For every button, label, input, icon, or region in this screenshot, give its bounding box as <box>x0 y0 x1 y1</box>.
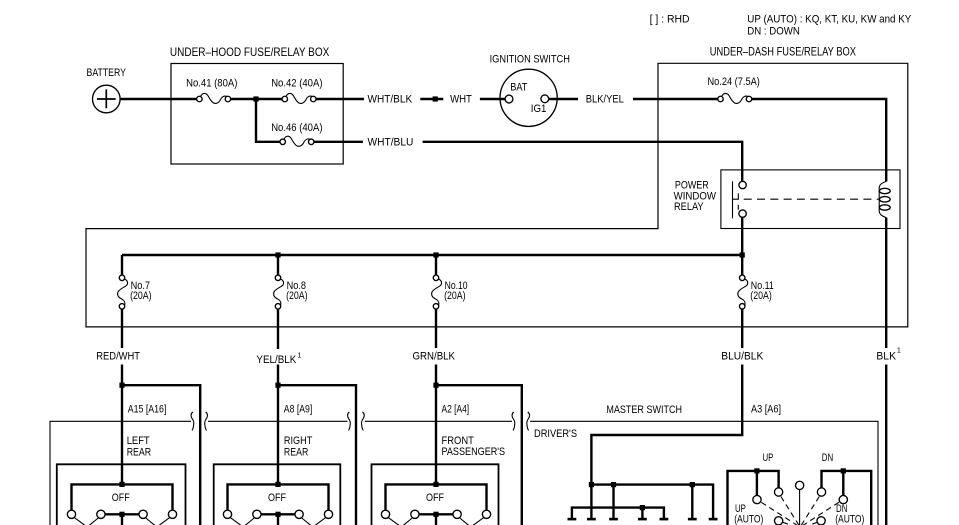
left rear switch contacts <box>67 510 75 518</box>
svg-text:REAR: REAR <box>284 446 308 458</box>
right rear switch box <box>214 464 341 525</box>
ignition switch IG1 contact <box>541 95 549 103</box>
svg-text:(AUTO): (AUTO) <box>734 514 763 525</box>
svg-text:BLU/BLK: BLU/BLK <box>721 350 764 362</box>
svg-text:A15 [A16]: A15 [A16] <box>128 404 167 416</box>
svg-text:(AUTO): (AUTO) <box>835 514 864 525</box>
svg-text:REAR: REAR <box>127 446 151 458</box>
front passenger door outline with breaks <box>361 412 364 430</box>
wire WHT/BLU <box>311 142 742 185</box>
left rear switch box <box>57 464 186 525</box>
node bus No.10 <box>433 252 438 257</box>
svg-text:RELAY: RELAY <box>674 201 704 213</box>
svg-text:(20A): (20A) <box>750 290 772 302</box>
svg-text:[ ] : RHD: [ ] : RHD <box>650 13 690 25</box>
right rear door outline with breaks <box>205 412 208 430</box>
svg-text:DRIVER'S: DRIVER'S <box>534 428 577 440</box>
node left rear branch <box>119 383 124 388</box>
wire right rear bypass <box>278 385 356 525</box>
svg-text:BAT: BAT <box>510 81 527 93</box>
master UP bracket <box>728 471 779 525</box>
svg-text:BLK/YEL: BLK/YEL <box>586 94 624 106</box>
node bus No.11 <box>740 252 745 257</box>
wire fuse No.24 to coil <box>750 99 886 182</box>
svg-text:UNDER–HOOD FUSE/RELAY BOX: UNDER–HOOD FUSE/RELAY BOX <box>170 45 329 59</box>
wire fuse No.7 branch <box>121 255 123 484</box>
svg-text:OFF: OFF <box>426 492 444 504</box>
relay armature <box>733 181 739 218</box>
svg-text:BLK: BLK <box>876 350 896 362</box>
wire fuse bus <box>122 254 742 256</box>
svg-text:No.41 (80A): No.41 (80A) <box>186 78 237 90</box>
wire left rear bypass <box>122 385 200 525</box>
front passenger switch OFF bracket <box>386 484 487 525</box>
svg-text:UP (AUTO) : KQ, KT, KU, KW and: UP (AUTO) : KQ, KT, KU, KW and KY <box>747 13 912 25</box>
wire BLK/YEL <box>545 98 721 100</box>
master pivot stem <box>799 490 801 525</box>
under-hood fuse/relay box outline <box>171 64 343 165</box>
svg-text:RED/WHT: RED/WHT <box>96 350 140 362</box>
fuse No.11 (20A) <box>738 275 748 309</box>
svg-text:LEFT: LEFT <box>127 435 150 447</box>
relay dashed link <box>744 198 879 200</box>
right rear switch wipers <box>231 518 326 525</box>
svg-text:IG1: IG1 <box>531 103 547 115</box>
svg-text:1: 1 <box>297 351 301 360</box>
ignition switch BAT contact <box>505 95 513 103</box>
right rear switch OFF bracket <box>228 484 329 525</box>
node under-hood junction <box>253 96 258 101</box>
fuse No.10 (20A) <box>432 275 442 309</box>
svg-text:GRN/BLK: GRN/BLK <box>413 350 456 362</box>
svg-text:A2 [A4]: A2 [A4] <box>442 404 470 416</box>
master switch contacts <box>795 481 803 489</box>
ignition switch body <box>500 69 557 126</box>
left rear switch OFF bracket <box>72 484 173 525</box>
power window relay box outline <box>721 170 900 229</box>
svg-text:A3 [A6]: A3 [A6] <box>751 404 781 416</box>
svg-text:PASSENGER'S: PASSENGER'S <box>442 446 506 458</box>
svg-text:OFF: OFF <box>268 492 286 504</box>
svg-text:DN : DOWN: DN : DOWN <box>747 25 800 37</box>
svg-text:MASTER SWITCH: MASTER SWITCH <box>606 404 682 416</box>
master switch terminals <box>568 518 577 521</box>
master switch dashed wiper positions <box>761 497 839 525</box>
fuse No.24 (7.5A) <box>718 93 752 103</box>
svg-text:A8 [A9]: A8 [A9] <box>284 404 313 416</box>
node bus No.8 <box>275 252 280 257</box>
svg-text:(20A): (20A) <box>130 290 152 302</box>
wire fuse No.41 to fuse No.42 <box>228 98 285 100</box>
svg-text:1: 1 <box>897 346 901 355</box>
node WHT splice <box>433 96 438 101</box>
svg-text:No.42 (40A): No.42 (40A) <box>271 78 322 90</box>
wire BLK down right side <box>885 218 887 525</box>
svg-text:RIGHT: RIGHT <box>284 435 313 447</box>
wire node to fuse No.46 <box>256 99 283 142</box>
front passenger switch wipers <box>389 518 484 525</box>
fuse No.8 (20A) <box>274 275 284 309</box>
relay top contact <box>739 181 746 188</box>
wire fuse No.8 branch <box>277 255 279 484</box>
svg-text:No.24 (7.5A): No.24 (7.5A) <box>708 76 760 88</box>
fuse No.41 (80A) <box>197 93 231 103</box>
svg-text:WHT: WHT <box>450 94 472 106</box>
front passenger switch box <box>372 464 499 525</box>
relay coil <box>879 181 886 217</box>
svg-text:UNDER–DASH FUSE/RELAY BOX: UNDER–DASH FUSE/RELAY BOX <box>710 44 856 58</box>
left rear switch wipers <box>75 518 170 525</box>
wire fuse No.10 branch <box>435 255 437 484</box>
wire battery to fuse No.41 <box>121 98 200 100</box>
left rear door outline with breaks <box>50 421 191 525</box>
node right rear branch <box>275 383 280 388</box>
fuse No.46 (40A) <box>280 136 314 146</box>
svg-text:IGNITION SWITCH: IGNITION SWITCH <box>490 54 570 66</box>
svg-text:OFF: OFF <box>112 492 130 504</box>
right rear switch contacts <box>223 510 231 518</box>
relay bottom contact <box>739 210 746 217</box>
svg-text:WHT/BLU: WHT/BLU <box>368 136 414 148</box>
svg-text:BATTERY: BATTERY <box>87 67 127 79</box>
svg-text:WHT/BLK: WHT/BLK <box>368 94 413 106</box>
wire WHT/BLK <box>313 98 443 100</box>
svg-text:(20A): (20A) <box>444 290 466 302</box>
svg-text:UP: UP <box>763 452 774 464</box>
under-dash fuse/relay box outline <box>86 63 908 327</box>
battery <box>93 85 121 113</box>
svg-text:DN: DN <box>822 452 833 464</box>
front passenger switch contacts <box>381 510 389 518</box>
driver door / master switch outline <box>527 412 530 430</box>
fuse No.42 (40A) <box>282 93 316 103</box>
master switch feed bus 1 <box>591 485 713 519</box>
svg-text:(20A): (20A) <box>286 290 308 302</box>
fuse No.7 (20A) <box>118 275 128 309</box>
wire relay output to fuse No.11 <box>591 214 742 485</box>
wire front passenger bypass <box>436 385 522 525</box>
svg-text:YEL/BLK: YEL/BLK <box>256 354 296 366</box>
svg-text:No.46 (40A): No.46 (40A) <box>271 122 322 134</box>
node front passenger branch <box>433 383 438 388</box>
master switch feed bus 2 <box>572 508 664 519</box>
master DN bracket <box>822 471 872 525</box>
wire WHT <box>480 98 509 100</box>
